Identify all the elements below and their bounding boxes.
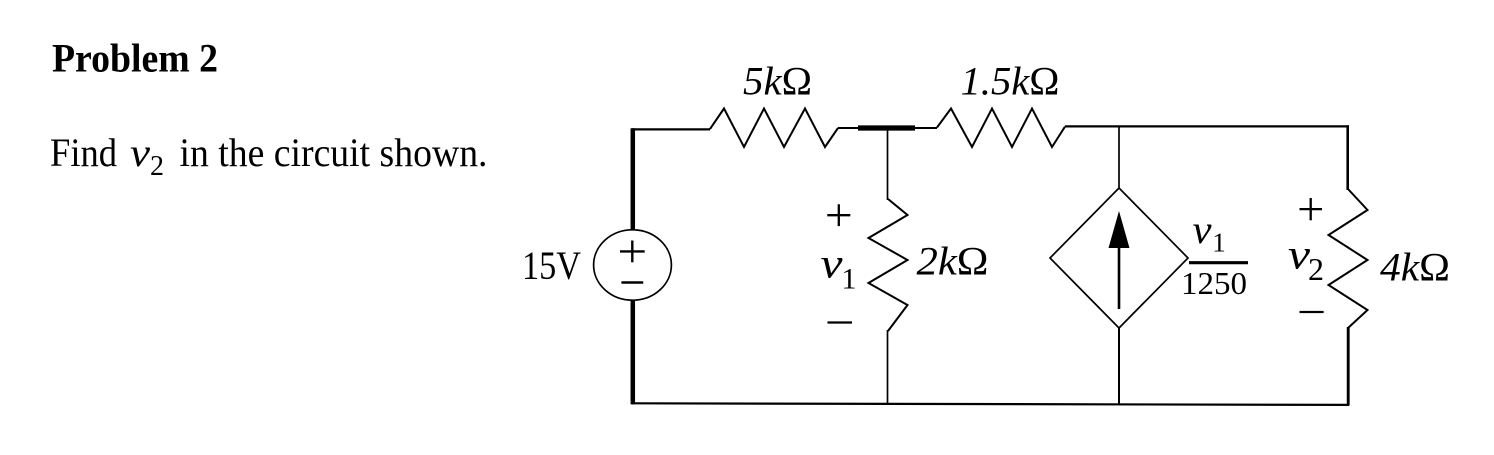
svg-text:in the circuit shown.: in the circuit shown. [180,130,488,175]
svg-text:5kΩ: 5kΩ [743,59,812,104]
svg-text:2: 2 [1308,251,1324,287]
svg-text:2: 2 [150,151,164,182]
svg-text:v: v [821,242,843,288]
svg-text:v: v [130,130,150,175]
svg-text:1: 1 [842,262,857,295]
svg-text:v: v [1193,207,1212,252]
svg-text:4kΩ: 4kΩ [1380,245,1450,290]
svg-text:Problem 2: Problem 2 [52,36,218,81]
svg-text:Find: Find [50,130,117,175]
svg-text:1.5kΩ: 1.5kΩ [961,59,1060,104]
svg-text:2kΩ: 2kΩ [917,239,989,284]
svg-text:1: 1 [1212,227,1226,257]
svg-text:15V: 15V [522,243,581,288]
svg-text:1250: 1250 [1181,265,1247,301]
